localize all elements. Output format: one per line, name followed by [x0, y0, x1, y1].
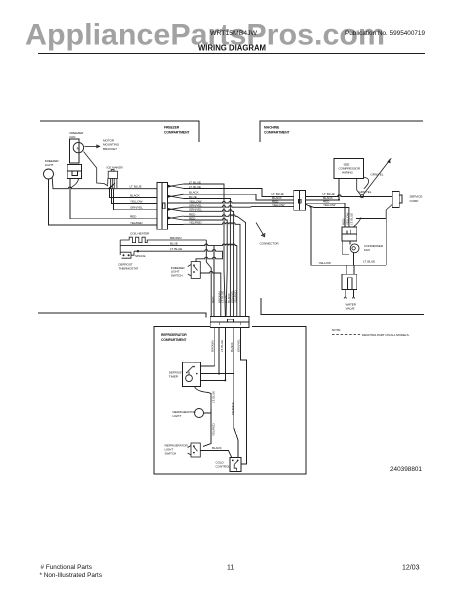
- wire compressor hook: [364, 178, 369, 189]
- wire compressor lead 2: [357, 179, 361, 196]
- strip2 connector freezer/refrigerator: [210, 316, 249, 327]
- connector pointer arrow: [256, 223, 264, 237]
- svg-text:LT. BLUE: LT. BLUE: [170, 247, 182, 251]
- defrost heater resistor: [120, 237, 206, 242]
- wire lt.blue freezer light to fan and strip: [52, 177, 157, 188]
- wire lt.blue heater row to freezer light switch: [134, 250, 223, 262]
- rotated label orange: [231, 402, 235, 415]
- wire harness from fan motor to ice maker: [84, 152, 109, 187]
- node yellow branch junction: [309, 206, 311, 208]
- wire grn/yel to cabinet ground: [363, 161, 389, 195]
- wire blue heater row: [120, 244, 237, 316]
- wire brown vertical to strip2: [206, 240, 211, 316]
- relay overload: [342, 227, 357, 241]
- node black compressor junction: [338, 199, 340, 201]
- wire yellow branch to water valve: [311, 206, 386, 265]
- rotated label yel/red: [212, 423, 216, 436]
- connector chevron row4: [168, 207, 184, 211]
- wire yellow ice maker to strip: [112, 189, 157, 203]
- svg-text:CONTROL: CONTROL: [216, 465, 231, 469]
- defrost timer: [182, 362, 200, 386]
- svg-text:12/03: 12/03: [402, 565, 420, 572]
- freezer light: [44, 169, 54, 179]
- refrigerator compartment border: [154, 327, 306, 475]
- connector row6 straight: [168, 223, 184, 225]
- wire timer row2: [201, 373, 234, 375]
- freezer compartment top border: [40, 121, 199, 142]
- svg-text:FAN: FAN: [364, 248, 370, 252]
- water valve terminals: [344, 297, 355, 299]
- wire red below strip2: [218, 328, 220, 374]
- svg-text:MACHINE: MACHINE: [264, 126, 280, 130]
- svg-text:WRT15MB4JW: WRT15MB4JW: [210, 30, 258, 37]
- wire lt.blue b to connector: [184, 188, 294, 196]
- cold control: [230, 458, 241, 472]
- machine compartment top border: [260, 121, 423, 142]
- svg-text:BLUE: BLUE: [170, 242, 178, 246]
- svg-text:ICE MAKER: ICE MAKER: [107, 166, 124, 170]
- svg-text:* Non-Illustrated Parts: * Non-Illustrated Parts: [40, 572, 103, 579]
- condenser shroud box: [356, 218, 386, 265]
- svg-text:COIL HEATER: COIL HEATER: [130, 232, 150, 236]
- water valve: [342, 274, 357, 289]
- wire timer bottom to light: [195, 387, 212, 410]
- wire brown below strip2: [214, 328, 216, 366]
- connector row3 straight: [168, 202, 184, 204]
- svg-text:GRN/YEL: GRN/YEL: [130, 206, 143, 210]
- wire grn/yel ice maker to strip: [114, 189, 157, 210]
- svg-text:240398801: 240398801: [390, 466, 422, 473]
- connector chevron row2: [168, 194, 184, 198]
- wire shroud corner curve to relay: [353, 218, 361, 228]
- svg-text:LT. BLUE: LT. BLUE: [220, 340, 224, 352]
- svg-text:YEL/RED: YEL/RED: [212, 423, 216, 436]
- svg-text:BLACK: BLACK: [212, 446, 223, 450]
- svg-text:LT. BLUE: LT. BLUE: [350, 213, 354, 225]
- refrigerator light switch: [188, 443, 201, 457]
- svg-text:YEL/RED: YEL/RED: [234, 290, 238, 303]
- condenser fan motor: [350, 244, 359, 253]
- svg-text:GRN/YEL: GRN/YEL: [236, 339, 240, 352]
- wire grn/yel b to bundle: [184, 210, 234, 317]
- svg-text:DENOTES PART ON ALL MODELS.: DENOTES PART ON ALL MODELS.: [362, 333, 410, 337]
- rotated harness labels above strip2: [211, 290, 238, 303]
- wire lt.blue to service cord: [305, 195, 392, 197]
- svg-text:BLACK: BLACK: [230, 341, 234, 352]
- freezer light switch: [188, 262, 201, 279]
- svg-text:LT. BLUE: LT. BLUE: [212, 391, 216, 403]
- service cord: [392, 191, 402, 207]
- svg-text:FAN: FAN: [70, 135, 76, 139]
- freezer compartment bottom border: [38, 313, 206, 318]
- connector chevron blobs: [168, 185, 172, 220]
- wire grn/yel a to connector: [184, 206, 294, 208]
- svg-text:# Functional Parts: # Functional Parts: [41, 564, 93, 571]
- svg-text:CORD: CORD: [410, 199, 420, 203]
- compressor wiring box: [334, 159, 364, 179]
- wire yellow to relay and valve: [305, 204, 349, 227]
- svg-text:COMPARTMENT: COMPARTMENT: [164, 130, 190, 134]
- wire blue to bundle: [184, 199, 231, 317]
- wire yellow to connector: [184, 201, 294, 203]
- svg-text:BROWN: BROWN: [211, 341, 215, 352]
- svg-text:11: 11: [227, 565, 234, 572]
- svg-text:BLACK: BLACK: [130, 193, 141, 197]
- svg-text:NOTE:: NOTE:: [332, 328, 341, 332]
- header rule: [38, 53, 425, 55]
- svg-text:BROWN: BROWN: [170, 236, 181, 240]
- freezer fan motor M: [73, 142, 83, 152]
- wire fan motor lead to lt.blue: [71, 178, 79, 188]
- svg-text:BRACKET: BRACKET: [103, 147, 117, 151]
- svg-text:TIMER: TIMER: [169, 374, 179, 378]
- svg-text:THERMOSTAT: THERMOSTAT: [119, 266, 139, 270]
- wire black switch to cold control: [200, 451, 232, 458]
- wire yel/red to bundle: [184, 223, 241, 317]
- wire freezer light switch down: [200, 271, 221, 316]
- svg-text:WIRING DIAGRAM: WIRING DIAGRAM: [198, 44, 266, 53]
- svg-text:YELLOW: YELLOW: [130, 199, 142, 203]
- rotated harness labels below strip2: [211, 339, 241, 352]
- svg-text:YELLOW: YELLOW: [319, 261, 331, 265]
- wire light to vertical: [204, 412, 212, 414]
- wire service cord return: [386, 205, 392, 219]
- svg-text:YEL/RED: YEL/RED: [130, 221, 143, 225]
- wire lt.blue a to bundle: [184, 184, 226, 316]
- svg-text:CONNECTOR: CONNECTOR: [260, 242, 280, 246]
- wire fan bottom lead: [353, 253, 355, 265]
- wire yel/red light down: [203, 409, 211, 447]
- svg-text:VALVE: VALVE: [346, 307, 355, 311]
- svg-text:SERVICE: SERVICE: [410, 195, 423, 199]
- svg-text:COMPARTMENT: COMPARTMENT: [161, 338, 187, 342]
- wire yel/red freezer light to strip: [49, 179, 157, 225]
- svg-text:LIGHT: LIGHT: [173, 414, 182, 418]
- refrigerator light: [195, 409, 204, 418]
- svg-text:GRN/YEL: GRN/YEL: [371, 173, 384, 177]
- wire lt.blue below strip2: [224, 328, 226, 381]
- svg-text:ORANGE: ORANGE: [231, 402, 235, 415]
- svg-text:Publication No. 5995400719: Publication No. 5995400719: [345, 30, 425, 37]
- wire grn/yel below strip2: [240, 328, 246, 464]
- rotated labels red yellow lt.blue: [341, 213, 353, 225]
- svg-text:LIGHT: LIGHT: [45, 163, 54, 167]
- wire black ice maker to strip: [109, 189, 156, 197]
- svg-text:LT. BLUE: LT. BLUE: [130, 185, 142, 189]
- wire fan top lead: [349, 241, 351, 244]
- node row2 junction b: [224, 379, 226, 381]
- wire blue tee vertical to strip2: [213, 246, 215, 317]
- svg-text:SPLICE: SPLICE: [135, 254, 145, 258]
- svg-text:SWITCH: SWITCH: [165, 452, 177, 456]
- wire red to relay: [305, 203, 345, 227]
- terminal strip connector: [157, 183, 168, 230]
- wire relay to fan: [343, 241, 349, 255]
- motor mounting bracket pointer: [84, 145, 99, 147]
- connector machine compartment: [294, 191, 306, 211]
- wire black to compressor: [305, 179, 339, 200]
- svg-text:FREEZER: FREEZER: [164, 126, 180, 130]
- connector chevron row5: [168, 216, 184, 220]
- wire black to connector: [184, 194, 294, 200]
- wire black below strip2: [234, 328, 238, 458]
- ice maker connector: [107, 170, 118, 189]
- svg-text:RED: RED: [130, 215, 137, 219]
- wire red a to bundle: [184, 215, 246, 317]
- svg-text:M: M: [77, 146, 80, 150]
- wire water valve leads: [345, 265, 354, 297]
- wire timer row1: [201, 365, 215, 367]
- svg-text:SWITCH: SWITCH: [171, 273, 183, 277]
- node timer row2 junction: [218, 373, 220, 375]
- svg-text:YELLOW: YELLOW: [272, 203, 284, 207]
- wire timer row3: [201, 379, 226, 381]
- connector chevron row1: [168, 184, 184, 188]
- machine compartment bottom border: [261, 298, 424, 315]
- freezer fan motor box: [67, 165, 82, 179]
- rotated label lt.blue light: [212, 391, 216, 403]
- wire red b to bundle: [184, 218, 228, 316]
- svg-text:COMPARTMENT: COMPARTMENT: [264, 130, 290, 134]
- wire red fan motor lead: [70, 178, 157, 218]
- defrost thermostat: [120, 240, 134, 258]
- svg-text:REFRIGERATOR: REFRIGERATOR: [161, 333, 187, 337]
- splice: [137, 250, 139, 252]
- svg-text:WIRING: WIRING: [342, 171, 354, 175]
- freezer fan housing: [70, 139, 80, 163]
- node grn/yel junction: [361, 195, 364, 198]
- svg-text:LT. BLUE: LT. BLUE: [363, 260, 375, 264]
- svg-text:RED: RED: [211, 296, 215, 303]
